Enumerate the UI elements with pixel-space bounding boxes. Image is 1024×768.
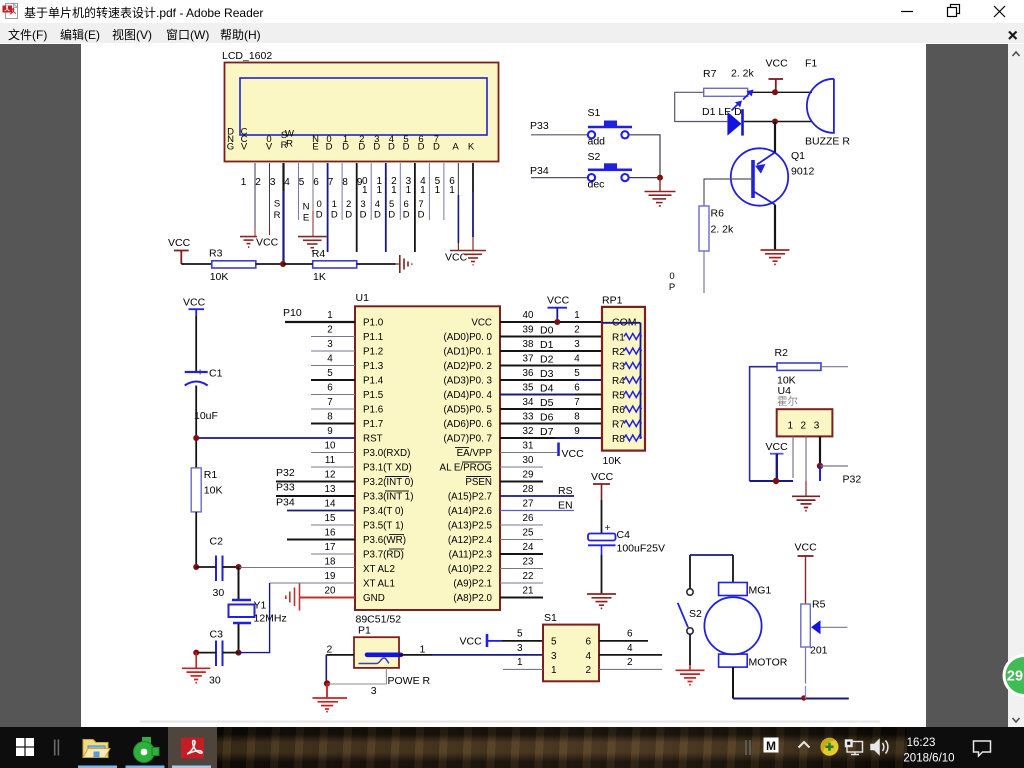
- wire VCC to C4: [601, 500, 603, 534]
- svg-text:U1: U1: [356, 292, 370, 304]
- svg-text:7: 7: [327, 397, 332, 408]
- svg-text:6: 6: [574, 383, 580, 394]
- power switch P1 (POWER): [354, 625, 431, 688]
- svg-text:4: 4: [375, 199, 380, 210]
- svg-text:F1: F1: [805, 58, 817, 70]
- switch S2 (motor): [678, 589, 702, 634]
- wire U1 pin12: [276, 481, 355, 483]
- svg-text:6: 6: [586, 637, 592, 648]
- wire U1 pin14: [287, 510, 355, 512]
- LCD pin numbers 1-16: [241, 176, 456, 196]
- svg-text:35: 35: [523, 383, 534, 394]
- file explorer icon: [83, 740, 110, 758]
- svg-text:VCC: VCC: [766, 58, 789, 70]
- svg-text:D0: D0: [540, 325, 554, 337]
- wire R6 down: [703, 251, 705, 293]
- svg-text:D: D: [418, 142, 425, 153]
- svg-text:P33: P33: [530, 120, 549, 132]
- svg-text:XT AL1: XT AL1: [363, 579, 395, 590]
- power pin symbol VCC (S1 connector): [460, 634, 544, 648]
- svg-text:VCC: VCC: [795, 542, 818, 554]
- wire Q1 emitter: [774, 122, 776, 153]
- svg-text:3: 3: [327, 339, 333, 350]
- svg-text:(A10)P2.2: (A10)P2.2: [448, 564, 492, 575]
- svg-text:P1.3: P1.3: [363, 361, 384, 372]
- svg-text:1: 1: [517, 657, 523, 668]
- svg-text:13: 13: [325, 484, 336, 495]
- svg-text:(AD1)P0. 1: (AD1)P0. 1: [444, 347, 492, 358]
- svg-text:3: 3: [270, 177, 276, 188]
- tray divider: [746, 740, 750, 755]
- ground (Q1 collector): [761, 250, 790, 264]
- power symbol VCC (U4): [766, 441, 789, 481]
- junction node (XTAL1/C3): [236, 650, 242, 656]
- wire C4 to ground: [601, 545, 603, 555]
- svg-text:(A8)P2.0: (A8)P2.0: [453, 593, 492, 604]
- svg-text:D1: D1: [540, 339, 554, 351]
- U1 left stub pin17: [311, 553, 355, 555]
- svg-text:7: 7: [328, 177, 334, 188]
- buzzer F1: [805, 58, 850, 148]
- svg-text:D7: D7: [540, 426, 554, 438]
- svg-text:P1.0: P1.0: [363, 318, 384, 329]
- LCD pin name VCC: [241, 127, 248, 153]
- svg-text:P34: P34: [276, 497, 295, 509]
- tray chevron: [799, 742, 810, 748]
- running app underlines: [78, 766, 117, 768]
- svg-text:R5: R5: [612, 391, 625, 402]
- svg-text:D3: D3: [540, 368, 554, 380]
- svg-text:6: 6: [327, 383, 333, 394]
- wire crystal junction to U1 pin18: [239, 567, 242, 569]
- svg-text:D: D: [374, 210, 381, 221]
- wire U1 pin40 to RP1 COM: [500, 321, 602, 323]
- floating green badge 29: [990, 652, 1024, 699]
- svg-text:D: D: [403, 210, 410, 221]
- wire P1 pin1 to S1 connector: [399, 654, 432, 656]
- svg-text:39: 39: [523, 325, 534, 336]
- svg-text:S1: S1: [544, 612, 557, 624]
- svg-text:VCC: VCC: [766, 441, 789, 453]
- wire D6 (pin33 to RP1): [500, 423, 602, 425]
- svg-text:R6: R6: [612, 405, 625, 416]
- wire LCD pin5: [312, 163, 314, 211]
- svg-text:D: D: [358, 142, 365, 153]
- svg-text:29: 29: [523, 470, 534, 481]
- svg-text:10K: 10K: [210, 271, 229, 283]
- svg-text:E: E: [303, 213, 309, 224]
- wire LCD pin8 D2: [356, 163, 358, 252]
- svg-text:11: 11: [325, 455, 335, 466]
- svg-text:S: S: [274, 199, 280, 210]
- push button S1 (add): [588, 107, 633, 148]
- svg-text:1: 1: [435, 185, 441, 196]
- svg-text:VCC: VCC: [547, 295, 570, 307]
- crystal Y1 12MHz: [229, 600, 287, 625]
- svg-text:D2: D2: [540, 354, 554, 366]
- svg-text:R7: R7: [703, 68, 717, 80]
- svg-text:1: 1: [551, 665, 557, 676]
- wire XTAL1 route: [239, 583, 270, 653]
- svg-text:S2: S2: [588, 151, 601, 163]
- svg-text:P3.4(T 0): P3.4(T 0): [363, 506, 404, 517]
- svg-text:P32: P32: [276, 467, 295, 479]
- svg-text:AL E/PROG: AL E/PROG: [440, 463, 492, 474]
- wire U1 pin13: [276, 495, 355, 497]
- svg-text:1: 1: [327, 310, 332, 321]
- net label D5: [388, 199, 395, 221]
- svg-text:VCC: VCC: [471, 318, 492, 329]
- U1 left stub pin15: [311, 524, 355, 526]
- svg-text:2: 2: [255, 177, 261, 188]
- wire U4 pin2 to ground: [805, 436, 807, 481]
- svg-text:36: 36: [523, 368, 534, 379]
- svg-text:0: 0: [669, 271, 674, 282]
- svg-text:C1: C1: [209, 368, 223, 380]
- resistor R4: [312, 248, 357, 283]
- wire R3 to junction: [256, 263, 284, 265]
- svg-text:G: G: [227, 142, 234, 153]
- wire D1 cathode to junction: [744, 121, 812, 123]
- wire U4 pin3 stub down: [819, 466, 821, 481]
- svg-text:P1.2: P1.2: [363, 347, 383, 358]
- svg-text:0: 0: [317, 199, 322, 210]
- tray network icon: [846, 740, 863, 755]
- svg-text:26: 26: [523, 513, 534, 524]
- U1 overlines on left pin names: [385, 477, 409, 550]
- svg-text:(A12)P2.4: (A12)P2.4: [448, 535, 493, 546]
- svg-text:P1.1: P1.1: [363, 332, 383, 343]
- capacitor C2: [210, 536, 225, 600]
- svg-text:15: 15: [325, 513, 336, 524]
- wire S2 to junction: [629, 177, 661, 179]
- U1 right stub pin21: [500, 597, 543, 599]
- wire LCD pin2: [269, 163, 271, 226]
- svg-text:P3.1(T XD): P3.1(T XD): [363, 463, 412, 474]
- svg-text:29: 29: [1007, 669, 1023, 685]
- svg-text:P1: P1: [358, 625, 371, 637]
- svg-text:30: 30: [209, 675, 221, 687]
- svg-text:VCC: VCC: [591, 471, 614, 483]
- svg-text:1: 1: [391, 185, 397, 196]
- svg-text:(AD0)P0. 0: (AD0)P0. 0: [444, 332, 493, 343]
- U1 overlines on right pin names: [455, 448, 491, 477]
- svg-text:R: R: [274, 210, 281, 221]
- svg-text:(AD7)P0. 7: (AD7)P0. 7: [444, 434, 492, 445]
- svg-text:RST: RST: [363, 434, 383, 445]
- svg-text:8: 8: [574, 412, 580, 423]
- svg-text:D5: D5: [540, 397, 554, 409]
- svg-text:10K: 10K: [204, 485, 223, 497]
- wire P33 to S1: [531, 134, 588, 136]
- svg-text:RP1: RP1: [602, 295, 623, 307]
- wire S2 top to motor: [689, 555, 691, 589]
- resistor R7: [703, 68, 755, 97]
- svg-text:V: V: [266, 142, 273, 153]
- U1 left pin numbers: [325, 310, 336, 597]
- wire D1 (pin38 to RP1): [500, 350, 602, 352]
- U1 right stub pin29: [500, 481, 543, 483]
- svg-text:Q1: Q1: [791, 150, 805, 162]
- ground (U4): [792, 496, 820, 510]
- svg-text:7: 7: [418, 199, 423, 210]
- start button windows logo: [16, 738, 34, 756]
- svg-text:POWE R: POWE R: [388, 675, 431, 687]
- junction node (XTAL2): [236, 564, 242, 570]
- U1 right pin names: [440, 318, 493, 605]
- svg-text:5: 5: [517, 629, 523, 640]
- wire bracket R7/D1 left: [675, 92, 704, 121]
- svg-text:D: D: [403, 142, 410, 153]
- junction node (P1 ground): [324, 680, 330, 686]
- power pin symbol VCC (EA): [559, 443, 585, 461]
- capacitor C1 (polarized): [185, 367, 223, 423]
- wire S1 to corner: [629, 135, 661, 178]
- svg-text:(AD6)P0. 6: (AD6)P0. 6: [444, 419, 493, 430]
- wire LCD pin13 D7: [428, 163, 430, 220]
- svg-text:R2: R2: [775, 347, 789, 359]
- svg-text:1: 1: [377, 185, 383, 196]
- wire LCD pin3 V0 (thick, to R3/R4 junction): [282, 163, 284, 191]
- svg-text:40: 40: [523, 310, 534, 321]
- ground (rotated, right of R4): [396, 255, 412, 273]
- svg-text:6: 6: [627, 629, 633, 640]
- junction node (buttons): [657, 175, 663, 181]
- svg-text:2: 2: [627, 657, 633, 668]
- svg-text:3: 3: [360, 199, 365, 210]
- wire U4 bottom bus: [750, 480, 793, 482]
- svg-text:2: 2: [327, 325, 332, 336]
- LCD pin name WR: [285, 129, 294, 150]
- svg-text:19: 19: [325, 571, 336, 582]
- faint next page edge: [140, 721, 880, 723]
- svg-text:P1.4: P1.4: [363, 376, 384, 387]
- wire U1 pin16 WR: [287, 539, 355, 541]
- svg-text:MG1: MG1: [749, 585, 772, 597]
- tray M icon: [764, 738, 779, 753]
- svg-text:P1.6: P1.6: [363, 405, 384, 416]
- svg-text:1: 1: [449, 185, 455, 196]
- svg-text:K: K: [468, 142, 475, 153]
- svg-text:30: 30: [523, 455, 534, 466]
- svg-text:(A13)P2.5: (A13)P2.5: [448, 521, 493, 532]
- junction node (C3 left): [193, 650, 199, 656]
- svg-text:3: 3: [814, 421, 820, 432]
- svg-text:8: 8: [327, 412, 333, 423]
- capacitor C3: [209, 629, 223, 687]
- wire LCD pin15 A: [457, 163, 459, 195]
- svg-text:D: D: [418, 210, 425, 221]
- svg-text:P1.5: P1.5: [363, 390, 384, 401]
- svg-text:R1: R1: [612, 333, 625, 344]
- wire Q1 base to R6: [704, 179, 753, 206]
- junction node (motor/R5): [801, 695, 806, 700]
- U1 left stubs pins 10,11: [311, 453, 355, 468]
- svg-text:P: P: [669, 282, 675, 293]
- svg-text:1K: 1K: [313, 271, 326, 283]
- svg-text:R: R: [286, 139, 293, 150]
- transistor Q1 9012: [731, 148, 815, 205]
- svg-text:PSEN: PSEN: [465, 477, 492, 488]
- wire U4 pin3: [819, 436, 821, 466]
- svg-text:M: M: [766, 739, 776, 753]
- svg-text:VCC: VCC: [460, 636, 483, 648]
- svg-text:10uF: 10uF: [194, 410, 218, 422]
- wire P34 to S2: [531, 177, 588, 179]
- svg-text:100uF25V: 100uF25V: [617, 543, 665, 555]
- svg-text:6: 6: [313, 177, 319, 188]
- power symbol VCC (buzzer): [766, 58, 789, 93]
- svg-text:6: 6: [404, 199, 409, 210]
- push button S2 (dec): [588, 151, 633, 191]
- wire LCD pin9 D3: [370, 163, 372, 220]
- svg-text:22: 22: [523, 571, 534, 582]
- LCD pin name V0: [266, 134, 273, 153]
- svg-text:P10: P10: [283, 307, 302, 319]
- wire S1 pin4: [599, 654, 662, 656]
- ground (LCD pin5): [298, 237, 327, 251]
- svg-text:(AD5)P0. 5: (AD5)P0. 5: [444, 405, 493, 416]
- svg-text:S1: S1: [588, 107, 601, 119]
- wire D7 (pin32 to RP1): [500, 437, 555, 439]
- svg-text:2. 2k: 2. 2k: [711, 224, 735, 236]
- U1 right stub pin24: [500, 553, 543, 555]
- svg-text:P3.5(T 1): P3.5(T 1): [363, 521, 404, 532]
- wire R7 to VCC junction: [748, 91, 812, 93]
- wire P1 pin3: [326, 668, 386, 684]
- svg-text:9012: 9012: [791, 166, 815, 178]
- svg-text:R1: R1: [204, 469, 218, 481]
- power symbol VCC (U1 pin40): [547, 295, 570, 323]
- svg-text:14: 14: [325, 499, 336, 510]
- wire D4 (pin35 to RP1): [500, 394, 575, 396]
- wire S1 pin1 stub: [503, 668, 543, 670]
- resistor R6: [699, 206, 734, 251]
- wire U1 pin1 P10: [285, 321, 355, 323]
- S1 outside pin numbers: [517, 629, 633, 669]
- wire LCD pin6 D0: [327, 163, 329, 252]
- LCD pin name EN: [312, 134, 319, 153]
- svg-text:dec: dec: [588, 179, 605, 191]
- svg-text:霍尔: 霍尔: [777, 395, 798, 408]
- svg-text:R7: R7: [612, 420, 625, 431]
- S1 inside pin labels: [551, 637, 592, 677]
- svg-text:P32: P32: [843, 474, 862, 486]
- svg-text:27: 27: [523, 499, 534, 510]
- svg-text:4: 4: [284, 177, 290, 188]
- junction node (D1/Q1/buzzer): [772, 119, 778, 125]
- wire R5 bottom to junction: [805, 647, 807, 684]
- svg-text:R5: R5: [812, 599, 826, 611]
- svg-text:23: 23: [523, 557, 534, 568]
- svg-text:R6: R6: [711, 208, 725, 220]
- net label RS: [274, 199, 281, 222]
- svg-text:R3: R3: [209, 248, 223, 260]
- U1 left stub pin8: [311, 423, 355, 425]
- svg-text:1: 1: [574, 310, 579, 321]
- svg-text:EN: EN: [558, 500, 573, 512]
- menu bar: [0, 23, 1024, 44]
- wire R1 to C2 row: [195, 512, 197, 567]
- svg-text:201: 201: [810, 645, 828, 657]
- svg-text:D: D: [316, 210, 323, 221]
- svg-text:25: 25: [523, 528, 534, 539]
- wire U1 pin18 XTAL2: [241, 567, 355, 569]
- wire P32 out: [820, 465, 848, 467]
- svg-text:P3.0(RXD): P3.0(RXD): [363, 448, 410, 459]
- svg-text:16:23: 16:23: [907, 737, 936, 749]
- ground (C4): [587, 594, 616, 608]
- wire R4 to ground: [357, 263, 396, 265]
- svg-text:D: D: [388, 210, 395, 221]
- svg-text:33: 33: [523, 412, 534, 423]
- net label EN: [303, 202, 310, 224]
- svg-text:4: 4: [627, 643, 633, 654]
- svg-text:30: 30: [213, 587, 225, 599]
- svg-text:38: 38: [523, 339, 534, 350]
- svg-text:31: 31: [523, 441, 534, 452]
- svg-text:32: 32: [523, 426, 534, 437]
- svg-text:1: 1: [362, 185, 368, 196]
- wire R2 left loop: [750, 367, 777, 481]
- svg-text:(A15)P2.7: (A15)P2.7: [448, 492, 492, 503]
- svg-text:(AD4)P0. 4: (AD4)P0. 4: [444, 390, 493, 401]
- svg-text:D: D: [360, 210, 367, 221]
- svg-text:A: A: [452, 142, 459, 153]
- ground (rotated, U1 GND pin): [286, 584, 300, 611]
- ground (buttons): [645, 192, 676, 206]
- wire S2 bottom to ground: [689, 634, 691, 665]
- active Adobe app button background: [168, 727, 217, 768]
- svg-text:3: 3: [551, 651, 557, 662]
- svg-text:V: V: [241, 142, 248, 153]
- svg-text:D: D: [342, 142, 349, 153]
- svg-text:VCC: VCC: [183, 297, 206, 309]
- junction node (VCC pin40): [554, 319, 560, 325]
- svg-text:VCC: VCC: [445, 252, 468, 264]
- svg-text:C4: C4: [617, 529, 631, 541]
- wire R2 right: [821, 366, 848, 368]
- wire U1 pin31 to VCC: [500, 452, 557, 454]
- svg-text:(A14)P2.6: (A14)P2.6: [448, 506, 493, 517]
- svg-text:34: 34: [523, 397, 534, 408]
- wire junction to ground: [326, 684, 328, 698]
- svg-text:Y1: Y1: [254, 600, 267, 612]
- wire junction to ground: [659, 178, 661, 192]
- taskbar divider: [55, 740, 59, 756]
- wire D1 anode: [704, 121, 727, 123]
- svg-text:D: D: [433, 142, 440, 153]
- microcontroller U1 89C51/52: [355, 292, 500, 626]
- svg-text:BUZZE R: BUZZE R: [805, 136, 850, 148]
- svg-text:D: D: [331, 210, 338, 221]
- svg-text:3: 3: [574, 339, 580, 350]
- svg-text:37: 37: [523, 354, 534, 365]
- svg-text:P3.2(INT 0): P3.2(INT 0): [363, 477, 413, 488]
- svg-text:D4: D4: [540, 383, 554, 395]
- wire D5 (pin34 to RP1): [500, 408, 602, 410]
- junction node (U4 VCC): [773, 478, 779, 484]
- wire motor bottom: [732, 667, 734, 698]
- svg-text:5: 5: [389, 199, 394, 210]
- potentiometer R5: [801, 599, 848, 657]
- tray speaker icon: [871, 740, 888, 754]
- svg-text:2. 2k: 2. 2k: [731, 68, 755, 80]
- svg-text:2: 2: [327, 644, 333, 656]
- LCD pin name RS: [281, 130, 288, 151]
- wire Q1 collector to ground: [774, 205, 776, 250]
- svg-text:21: 21: [523, 586, 534, 597]
